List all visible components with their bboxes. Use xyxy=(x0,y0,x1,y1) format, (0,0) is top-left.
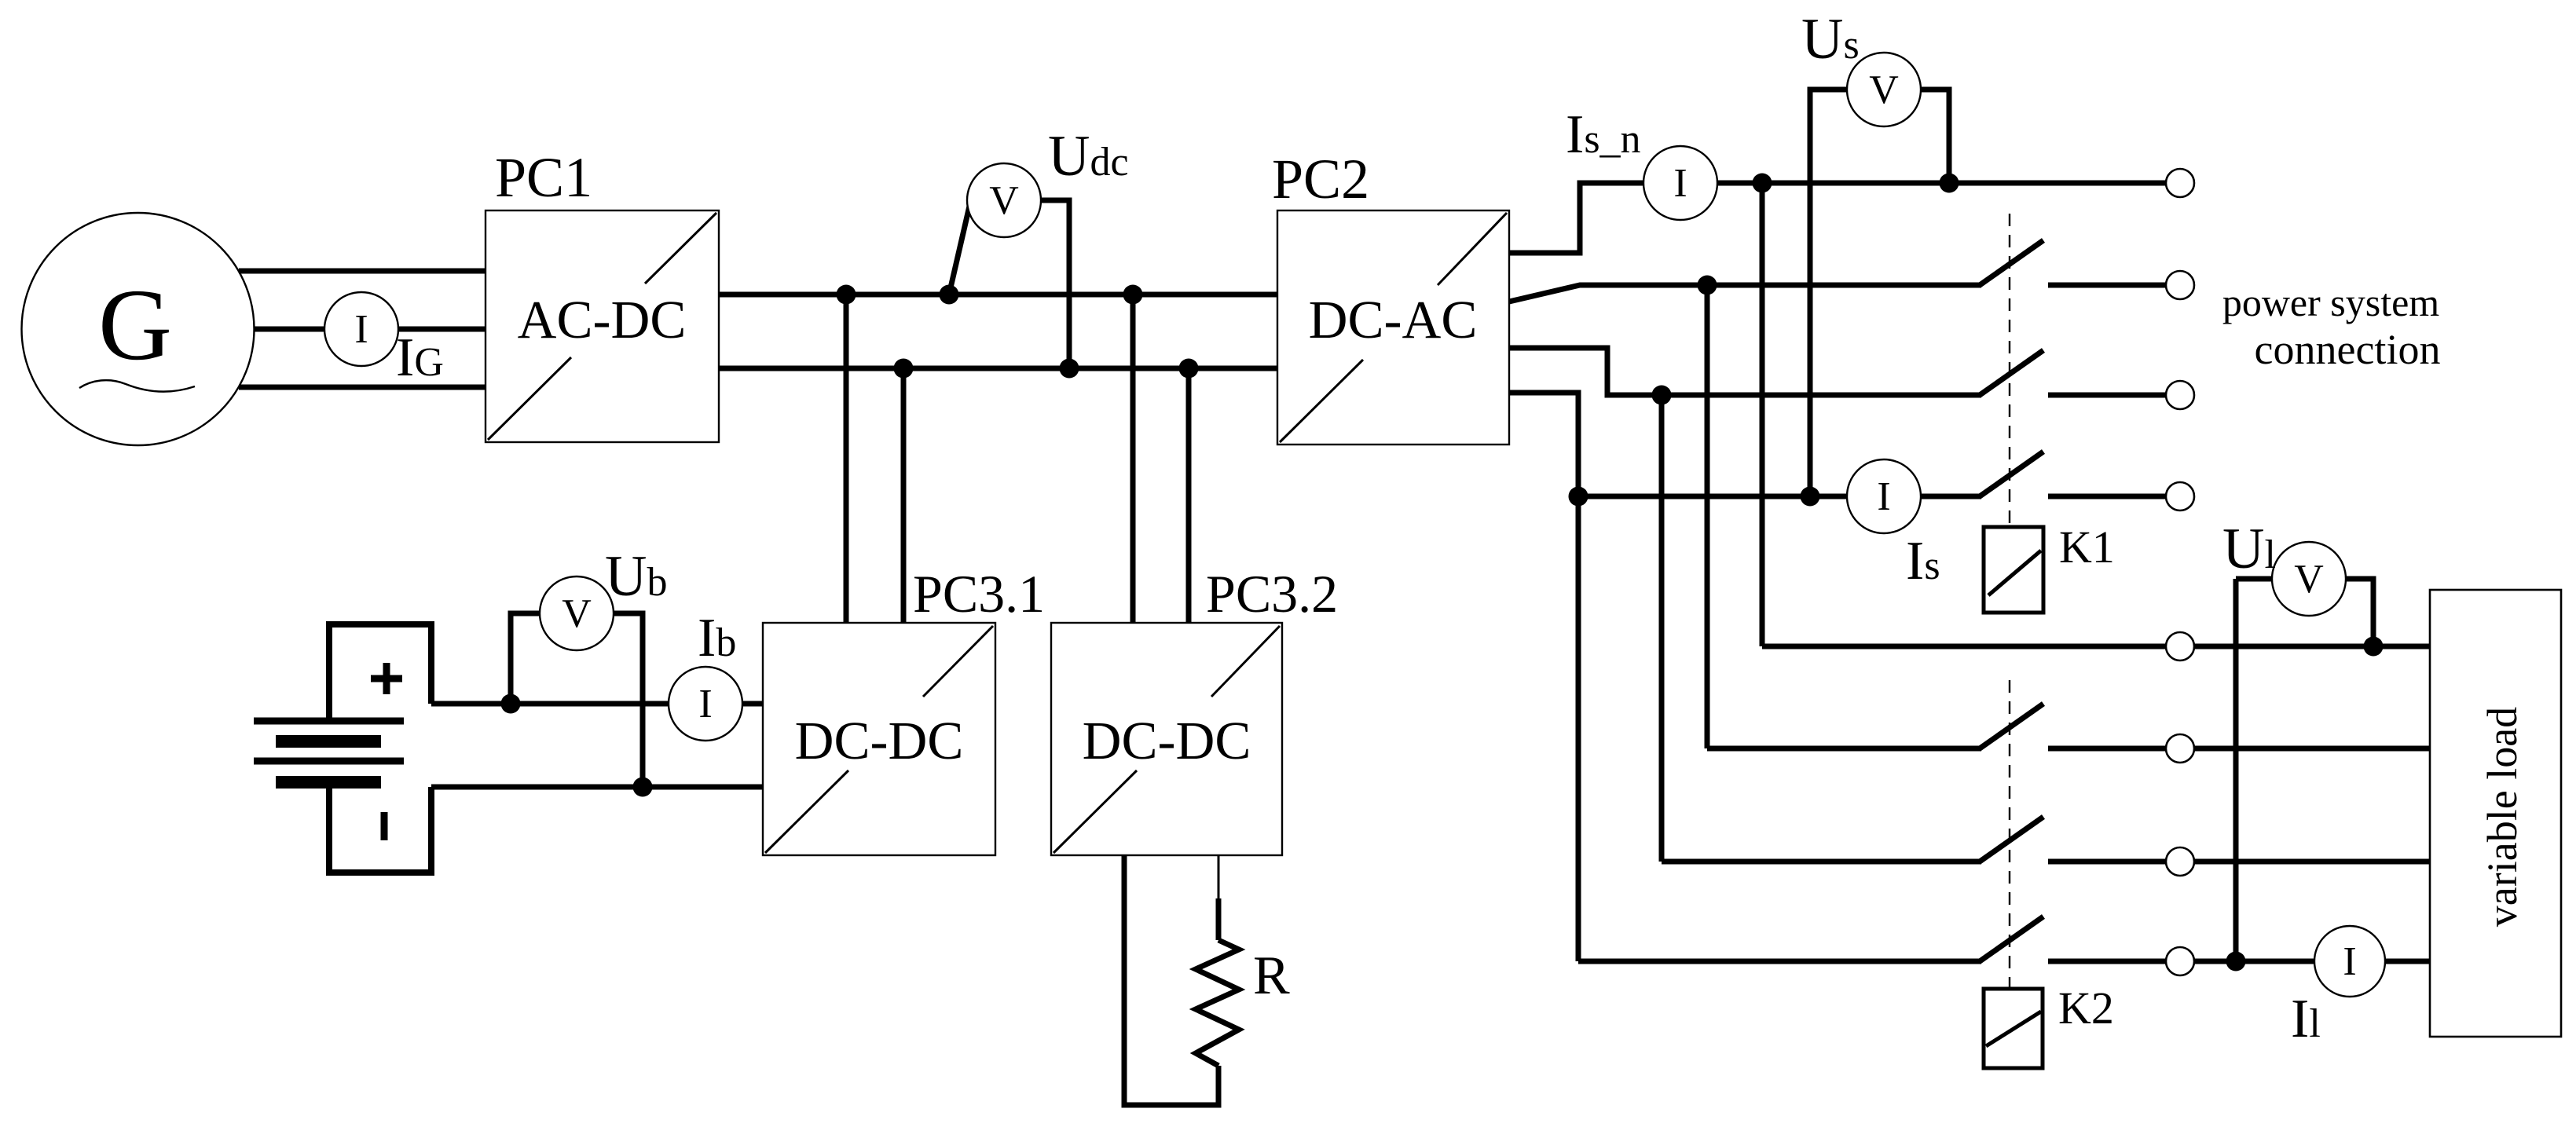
wire phase 1 to terminal xyxy=(1717,181,2166,186)
wire resistor top lead thin xyxy=(1218,855,1220,901)
terminal circle wire2 xyxy=(2166,271,2194,299)
svg-text:I: I xyxy=(698,682,712,726)
svg-text:R: R xyxy=(1253,946,1290,1006)
battery plate short 2 xyxy=(276,776,381,789)
wire Udc voltmeter left lead xyxy=(949,203,970,295)
generator sine wave xyxy=(79,380,195,391)
junction dot wire1 at vertical xyxy=(1753,174,1772,193)
junction dot bus bottom 3 xyxy=(1179,359,1199,379)
battery plate long 1 xyxy=(254,718,404,725)
wire DC bus bottom xyxy=(719,366,1277,371)
wire Udc voltmeter right lead xyxy=(1039,200,1069,368)
wire PC2 output 2 slant xyxy=(1509,285,1981,302)
junction dot bus bottom 1 xyxy=(894,359,914,379)
svg-text:V: V xyxy=(2294,557,2324,602)
ammeter I (IG) xyxy=(324,292,398,366)
svg-text:V: V xyxy=(562,591,592,636)
wire phase 4 horizontal xyxy=(1578,494,1981,499)
junction dot load D xyxy=(2226,952,2246,971)
battery negative bracket xyxy=(329,779,431,873)
svg-text:I: I xyxy=(1673,161,1687,206)
wire resistor top lead thick xyxy=(1216,898,1222,940)
load C post-switch xyxy=(2048,859,2166,865)
load B to box xyxy=(2194,746,2430,752)
switch blade wire2 xyxy=(1980,240,2043,285)
terminal circle load D xyxy=(2166,947,2194,975)
switch blade load D xyxy=(1980,917,2043,961)
svg-text:I: I xyxy=(354,307,368,352)
wire vertical phase2 to load B xyxy=(1705,285,1710,748)
relay K1 diagonal xyxy=(1988,551,2041,595)
junction dot wire4 at Us lead xyxy=(1801,487,1820,507)
svg-text:K1: K1 xyxy=(2059,521,2115,573)
wire DC bus top xyxy=(719,292,1277,298)
svg-text:V: V xyxy=(1869,68,1899,112)
junction dot battery plus xyxy=(501,694,521,714)
svg-text:DC-DC: DC-DC xyxy=(795,711,964,770)
load B post-switch xyxy=(2048,746,2166,752)
terminal circle wire1 xyxy=(2166,169,2194,197)
junction dot bus top 3 xyxy=(1123,285,1143,305)
junction dot load A xyxy=(2364,637,2384,657)
voltmeter V (Udc) xyxy=(967,163,1041,237)
svg-text:variable load: variable load xyxy=(2479,707,2526,927)
ammeter I (Ib) xyxy=(669,667,742,741)
svg-text:connection: connection xyxy=(2255,326,2441,373)
converter PC3.1 diagonal xyxy=(765,626,993,853)
svg-text:I: I xyxy=(2343,939,2356,984)
voltmeter V (Ub) xyxy=(540,576,614,650)
terminal circle load A xyxy=(2166,632,2194,660)
ammeter I (Is) xyxy=(1847,459,1921,533)
wire PC2 output 1 xyxy=(1509,183,1643,253)
load D post-switch xyxy=(2048,959,2166,964)
svg-text:power system: power system xyxy=(2222,280,2439,324)
switch blade wire3 xyxy=(1980,350,2043,395)
relay K2 box xyxy=(1984,989,2043,1068)
converter PC3.2 box xyxy=(1051,623,1282,855)
battery positive bracket xyxy=(329,624,431,718)
load D to box xyxy=(2194,959,2430,964)
wire generator phase mid xyxy=(254,327,486,332)
switch blade load B xyxy=(1980,704,2043,748)
resistor R zigzag xyxy=(1196,940,1239,1066)
ammeter I (Is_n) xyxy=(1643,146,1717,220)
svg-text:AC-DC: AC-DC xyxy=(518,290,687,349)
wire battery positive xyxy=(431,701,763,707)
battery plus sign xyxy=(371,663,402,694)
voltmeter V (Us) leads xyxy=(1810,90,1847,496)
junction dot bus top 1 xyxy=(837,285,856,305)
wire vertical phase3 to load C xyxy=(1659,395,1665,862)
junction dot battery minus xyxy=(633,778,653,797)
wire4 post-switch xyxy=(2048,494,2166,499)
converter PC3.2 diagonal xyxy=(1053,626,1280,853)
svg-text:PC3.1: PC3.1 xyxy=(913,564,1045,624)
wire PC2 output 3 xyxy=(1509,348,1981,395)
load wire A xyxy=(1762,644,2430,649)
svg-text:PC2: PC2 xyxy=(1272,148,1369,210)
wire2 post-switch xyxy=(2048,283,2166,288)
wire vertical phase1 to load A xyxy=(1760,183,1765,646)
converter PC2 diagonal xyxy=(1280,213,1507,442)
converter PC1 diagonal xyxy=(488,213,716,440)
wire PC3.2 load loop left xyxy=(1124,855,1218,1105)
svg-text:V: V xyxy=(989,178,1019,223)
svg-text:PC1: PC1 xyxy=(495,146,592,209)
svg-text:K2: K2 xyxy=(2058,982,2114,1034)
battery plate long 2 xyxy=(254,758,404,765)
wire drop to PC3.1 minus xyxy=(901,368,907,623)
converter PC1 box xyxy=(486,210,719,442)
voltmeter V (Ul) xyxy=(2272,542,2346,616)
battery minus sign xyxy=(381,812,388,840)
relay K1 box xyxy=(1984,527,2043,613)
voltmeter Ul left lead xyxy=(2236,576,2272,582)
terminal circle wire4 xyxy=(2166,482,2194,510)
load wire B left xyxy=(1707,746,1981,752)
junction dot wire3 xyxy=(1652,386,1672,405)
junction dot bus bottom 2 xyxy=(1060,359,1079,379)
generator G circle xyxy=(22,213,255,445)
wire Ul bus vertical xyxy=(2233,579,2239,961)
converter PC3.1 box xyxy=(763,623,995,855)
dashed link K1 xyxy=(2009,214,2010,527)
dashed link K2 xyxy=(2009,680,2010,989)
load wire D left xyxy=(1578,959,1981,964)
ammeter I (Il) xyxy=(2314,926,2385,997)
load C to box xyxy=(2194,859,2430,865)
battery plate short 1 xyxy=(276,735,381,748)
wire generator phase bottom xyxy=(239,385,486,390)
svg-text:I: I xyxy=(1877,474,1890,519)
converter PC2 box xyxy=(1277,210,1509,445)
terminal circle load B xyxy=(2166,734,2194,763)
junction dot bus top 2 xyxy=(940,285,959,305)
svg-text:DC-AC: DC-AC xyxy=(1309,290,1478,349)
voltmeter Ul right lead xyxy=(2346,579,2373,646)
terminal circle wire3 xyxy=(2166,381,2194,409)
load wire C left xyxy=(1662,859,1981,865)
voltmeter V (Us) xyxy=(1847,53,1921,126)
wire drop to PC3.1 plus xyxy=(844,295,849,623)
svg-text:DC-DC: DC-DC xyxy=(1083,711,1251,770)
wire generator phase top xyxy=(239,269,486,274)
wire drop to PC3.2 minus xyxy=(1186,368,1192,623)
terminal circle load C xyxy=(2166,847,2194,876)
wire3 post-switch xyxy=(2048,393,2166,398)
wire drop to PC3.2 plus xyxy=(1130,295,1136,623)
svg-text:G: G xyxy=(98,269,172,382)
wire battery negative xyxy=(431,785,763,790)
relay K2 diagonal xyxy=(1986,1012,2041,1046)
svg-text:PC3.2: PC3.2 xyxy=(1206,564,1338,624)
switch blade wire4 xyxy=(1980,452,2043,496)
wire PC2 output 4 drop xyxy=(1509,393,1578,961)
junction dot wire4 left xyxy=(1569,487,1588,507)
voltmeter Ub leads xyxy=(511,613,540,704)
switch blade load C xyxy=(1980,817,2043,862)
junction dot wire2 xyxy=(1698,276,1717,295)
variable load box xyxy=(2430,590,2561,1037)
junction dot wire1 at Us lead xyxy=(1940,174,1959,193)
